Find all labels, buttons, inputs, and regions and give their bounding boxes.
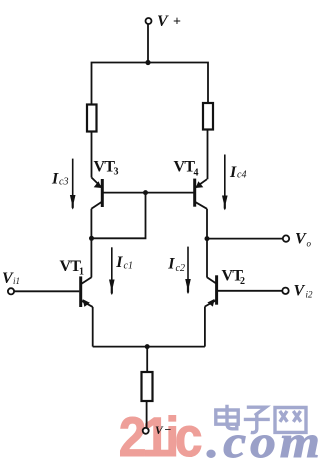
wire mirror link <box>92 193 146 239</box>
transistor VT2 <box>205 275 217 306</box>
wire to Vo terminal <box>207 238 283 240</box>
label V- <box>155 423 172 437</box>
wire base VT2 to Vi2 <box>217 290 282 292</box>
svg-text:.com: .com <box>207 416 321 458</box>
svg-text:3: 3 <box>114 167 119 178</box>
svg-text:4: 4 <box>194 168 199 179</box>
wire tail down <box>146 347 148 372</box>
svg-text:o: o <box>307 239 312 249</box>
label Vi1 <box>2 270 20 287</box>
resistor R2 <box>203 103 213 130</box>
网 <box>275 408 306 433</box>
current arrow Ic4 <box>222 155 228 211</box>
transistor VT1 <box>81 276 93 307</box>
resistor R1 <box>87 105 97 132</box>
watermark 电子网 (drawn) <box>216 405 306 433</box>
current arrow Ic3 <box>70 159 76 210</box>
label Ic3 <box>51 171 68 188</box>
wire R3 to V- terminal <box>146 401 148 428</box>
svg-text:VT: VT <box>174 159 196 176</box>
svg-text:2: 2 <box>240 276 245 287</box>
transistor VT4 <box>195 179 207 209</box>
base rail VT3-VT4 <box>102 192 194 194</box>
svg-text:c1: c1 <box>124 261 133 272</box>
node mirror-collector junction <box>89 236 94 241</box>
svg-text:c4: c4 <box>237 170 246 181</box>
VT3 emitter arrow (PNP) <box>94 181 102 188</box>
wire base VT1 to Vi1 <box>14 290 79 292</box>
svg-text:+: + <box>173 15 181 30</box>
label Vo <box>295 231 312 249</box>
svg-text:I: I <box>115 254 123 271</box>
top rail wire <box>92 63 209 105</box>
watermark 21ic <box>119 406 201 458</box>
svg-text:V: V <box>295 231 307 248</box>
svg-text:c2: c2 <box>176 263 185 274</box>
label Vi2 <box>294 282 314 299</box>
svg-text:−: − <box>165 423 172 437</box>
bottom emitter rail wire <box>93 346 205 348</box>
terminal Vo <box>283 235 289 241</box>
label Ic2 <box>167 256 185 275</box>
terminal Vi1 <box>8 288 14 294</box>
wire VT3 collector down to VT1 <box>90 209 92 278</box>
junction dots <box>89 60 210 349</box>
VT2 emitter arrow (NPN) <box>207 299 214 307</box>
label Ic1 <box>115 254 133 272</box>
svg-text:I: I <box>167 256 175 273</box>
wire R1 to VT3 emitter <box>91 132 93 178</box>
wire VT2 emitter down <box>204 307 206 347</box>
VT4 emitter arrow (PNP) <box>196 181 204 188</box>
label VT3 <box>94 159 119 178</box>
resistor R3 tail <box>142 372 153 401</box>
svg-text:I: I <box>229 164 237 181</box>
svg-text:V: V <box>155 425 164 437</box>
node Vo junction <box>205 236 210 241</box>
svg-text:i1: i1 <box>13 276 20 286</box>
transistor VT3 <box>91 178 102 209</box>
VT1 emitter arrow (NPN) <box>83 299 90 307</box>
node emitter rail junction <box>145 344 150 349</box>
子 <box>244 407 270 432</box>
svg-text:VT: VT <box>94 159 116 176</box>
svg-text:I: I <box>51 171 59 188</box>
current arrow Ic1 <box>109 247 115 295</box>
label V+ <box>157 13 181 30</box>
svg-text:i2: i2 <box>306 290 314 300</box>
wire VT1 emitter down <box>92 307 94 347</box>
svg-text:c3: c3 <box>59 177 68 188</box>
current arrow Ic2 <box>185 247 191 294</box>
电 <box>216 405 238 429</box>
label Ic4 <box>229 164 246 181</box>
terminal V- <box>143 428 149 434</box>
wire VT4 collector down to VT2 <box>206 209 208 278</box>
svg-text:V: V <box>294 282 306 299</box>
label VT2 <box>222 268 246 288</box>
terminal Vi2 <box>282 288 288 294</box>
label VT1 <box>60 258 85 278</box>
wire V+ down <box>147 24 149 62</box>
node base rail junction <box>143 190 148 195</box>
wire R2 to VT4 emitter <box>207 130 209 180</box>
circuit ink <box>8 18 289 434</box>
label VT4 <box>174 159 199 179</box>
svg-text:1: 1 <box>79 267 84 278</box>
terminal V+ <box>146 18 152 24</box>
node top rail junction <box>145 60 150 65</box>
svg-text:V: V <box>157 13 169 30</box>
